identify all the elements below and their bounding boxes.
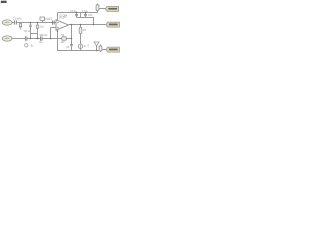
svg-text:25V: 25V [88, 15, 93, 17]
svg-text:C7 1u: C7 1u [82, 11, 89, 13]
svg-text:C2 2n: C2 2n [24, 31, 31, 33]
svg-text:C9 1u: C9 1u [70, 11, 77, 13]
